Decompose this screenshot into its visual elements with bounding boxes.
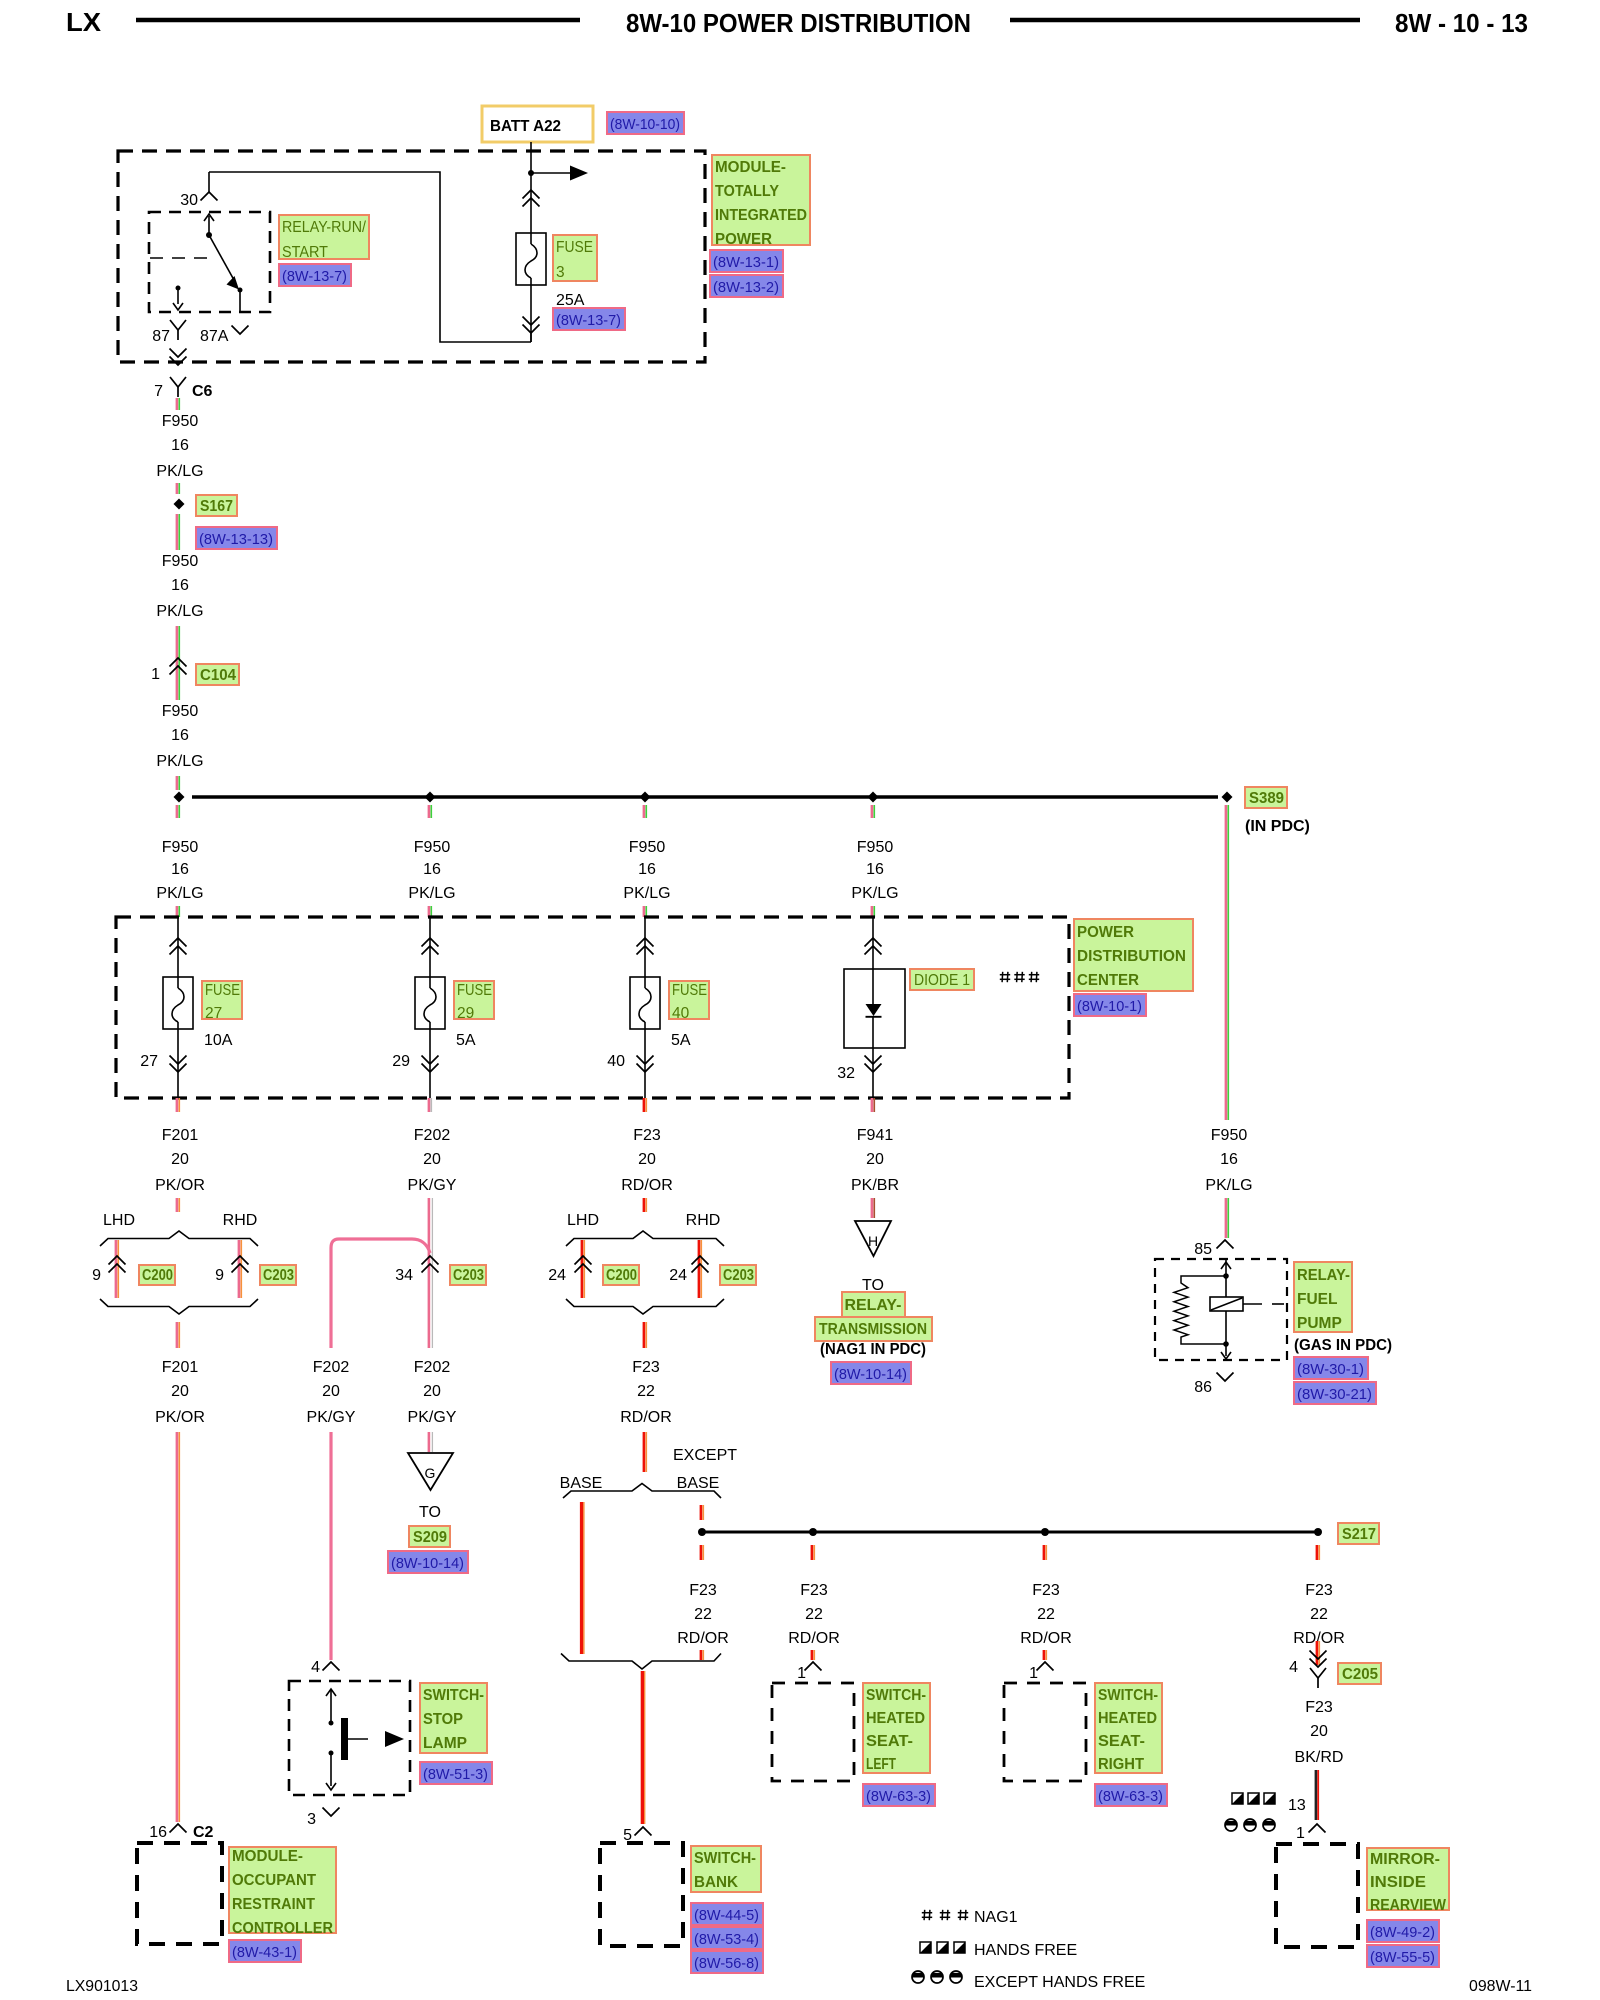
wire F202 below PDC (428, 1098, 431, 1112)
svg-text:C203: C203 (263, 1267, 294, 1284)
svg-text:34: 34 (395, 1267, 413, 1284)
wire F23 LHD (581, 1240, 584, 1298)
switch heated seat RIGHT dashed box (1004, 1683, 1086, 1781)
wire F23 except-base to S217 (700, 1505, 703, 1520)
label FUSE 27 (202, 981, 242, 1019)
svg-text:PUMP: PUMP (1297, 1315, 1342, 1332)
svg-text:INSIDE: INSIDE (1370, 1874, 1426, 1891)
svg-text:SWITCH-: SWITCH- (1098, 1687, 1158, 1704)
svg-text:(8W-10-10): (8W-10-10) (610, 116, 680, 133)
svg-text:G: G (425, 1465, 436, 1481)
svg-text:F23: F23 (633, 1127, 661, 1144)
connector C203 pin 9 (F201) (232, 1256, 249, 1265)
svg-text:PK/LG: PK/LG (156, 885, 203, 902)
svg-text:PK/OR: PK/OR (155, 1409, 205, 1426)
brace merge F23 (566, 1299, 724, 1314)
fuse 29 (415, 977, 445, 1029)
svg-text:24: 24 (548, 1267, 566, 1284)
svg-text:(8W-56-8): (8W-56-8) (694, 1955, 759, 1972)
module Power Distribution Center dashed box (116, 917, 1069, 1098)
svg-text:RD/OR: RD/OR (1020, 1630, 1072, 1647)
svg-text:20: 20 (1310, 1723, 1328, 1740)
header rule right (1010, 18, 1360, 23)
switch heated seat RIGHT pin 1 (1037, 1662, 1054, 1671)
wire F23 to switch bank (641, 1671, 644, 1824)
label S209 (409, 1526, 450, 1547)
svg-text:1: 1 (797, 1665, 806, 1682)
svg-text:START: START (282, 244, 328, 261)
svg-text:PK/LG: PK/LG (156, 463, 203, 480)
svg-text:1: 1 (1296, 1825, 1305, 1842)
svg-text:DISTRIBUTION: DISTRIBUTION (1077, 948, 1186, 965)
svg-text:C2: C2 (193, 1824, 214, 1841)
page ref (8W-53-4) (691, 1927, 763, 1949)
svg-text:(NAG1 IN PDC): (NAG1 IN PDC) (820, 1341, 926, 1358)
svg-text:16: 16 (171, 577, 189, 594)
label MODULE-OCCUPANT RESTRAINT CONTROLLER (229, 1847, 336, 1933)
page ref (8W-13-7) fuse3 (553, 308, 625, 330)
module Occupant Restraint Controller box (137, 1843, 222, 1944)
svg-text:RD/OR: RD/OR (620, 1409, 672, 1426)
svg-text:29: 29 (457, 1005, 474, 1022)
svg-text:29: 29 (392, 1053, 410, 1070)
label C200 (139, 1265, 175, 1285)
connector C205 pin 4 (1310, 1659, 1327, 1668)
svg-text:22: 22 (694, 1606, 712, 1623)
wire F950 to fuel pump relay (1225, 805, 1228, 1120)
svg-text:HEATED: HEATED (1098, 1710, 1157, 1727)
svg-text:BANK: BANK (694, 1874, 739, 1891)
svg-text:F950: F950 (629, 839, 666, 856)
switch stop lamp dashed box (289, 1681, 410, 1795)
junction dot (528, 170, 534, 176)
page ref (8W-43-1) (229, 1940, 301, 1962)
node BATT A22 (482, 106, 593, 142)
wire F201 long run to OCM (176, 1432, 179, 1822)
svg-text:16: 16 (171, 727, 189, 744)
page ref (8W-10-10) (607, 112, 684, 134)
svg-text:(8W-13-7): (8W-13-7) (282, 268, 347, 285)
svg-text:PK/GY: PK/GY (307, 1409, 356, 1426)
svg-text:(8W-63-3): (8W-63-3) (1098, 1788, 1163, 1805)
svg-text:24: 24 (669, 1267, 687, 1284)
svg-text:22: 22 (1310, 1606, 1328, 1623)
svg-text:INTEGRATED: INTEGRATED (715, 207, 807, 224)
svg-text:(IN PDC): (IN PDC) (1245, 818, 1310, 835)
page ref (8W-13-1) (710, 250, 783, 272)
svg-text:C203: C203 (723, 1267, 754, 1284)
svg-text:40: 40 (607, 1053, 625, 1070)
label C203 (F202) (450, 1265, 486, 1285)
connector C203 pin 34 (422, 1256, 439, 1265)
svg-text:CONTROLLER: CONTROLLER (232, 1920, 333, 1937)
svg-text:F201: F201 (162, 1127, 199, 1144)
svg-text:PK/LG: PK/LG (156, 753, 203, 770)
svg-text:27: 27 (140, 1053, 158, 1070)
svg-text:22: 22 (1037, 1606, 1055, 1623)
svg-text:S217: S217 (1342, 1526, 1376, 1543)
page ref (8W-10-14) transmission (831, 1362, 911, 1384)
svg-text:8W - 10 - 13: 8W - 10 - 13 (1395, 8, 1528, 38)
label S167 (196, 495, 237, 516)
wire F941 stub (871, 1198, 874, 1218)
wire below S167 (176, 514, 179, 550)
svg-text:(8W-30-1): (8W-30-1) (1297, 1361, 1364, 1378)
svg-text:(8W-30-21): (8W-30-21) (1297, 1386, 1372, 1403)
svg-text:PK/LG: PK/LG (623, 885, 670, 902)
switch stop lamp pin 3 (323, 1808, 340, 1817)
svg-text:F950: F950 (162, 553, 199, 570)
svg-text:FUSE: FUSE (556, 239, 593, 256)
page ref (8W-56-8) (691, 1951, 763, 1973)
wire F202 branch to stop lamp switch (331, 1239, 430, 1348)
svg-text:RHD: RHD (686, 1212, 721, 1229)
brace merge F201 (100, 1299, 258, 1314)
svg-text:BK/RD: BK/RD (1295, 1749, 1344, 1766)
label S389 (1245, 787, 1287, 808)
connector C203 pin 24 (692, 1256, 709, 1265)
splice bus junction 1 (174, 792, 185, 803)
connector C104 pin 1 (170, 658, 187, 667)
wire F201 below PDC (176, 1098, 179, 1112)
svg-text:22: 22 (637, 1383, 655, 1400)
svg-text:F23: F23 (632, 1359, 660, 1376)
splice S389 (1222, 792, 1233, 803)
brace split LHD/RHD F201 (100, 1231, 258, 1246)
label RELAY-RUN/START (279, 215, 369, 259)
svg-text:F950: F950 (1211, 1127, 1248, 1144)
page ref (8W-51-3) (420, 1762, 492, 1784)
svg-text:(8W-13-2): (8W-13-2) (713, 279, 779, 296)
wire F23 drop at 702 (700, 1545, 703, 1560)
svg-text:F950: F950 (162, 703, 199, 720)
svg-text:098W-11: 098W-11 (1469, 1978, 1532, 1995)
svg-text:13: 13 (1288, 1797, 1306, 1814)
wire F23 drop at 1045 (1043, 1545, 1046, 1560)
splice S167 (174, 499, 185, 510)
svg-text:(8W-55-5): (8W-55-5) (1370, 1949, 1435, 1966)
wire F202 stub (428, 1198, 431, 1348)
marker NAG1 hashes (1000, 974, 1010, 976)
label FUSE 3 (553, 235, 597, 281)
svg-text:SWITCH-: SWITCH- (866, 1687, 926, 1704)
svg-text:PK/BR: PK/BR (851, 1177, 899, 1194)
label C203 (260, 1265, 296, 1285)
svg-text:20: 20 (423, 1151, 441, 1168)
header rule left (136, 18, 580, 23)
page ref (8W-13-7) relay (279, 264, 351, 286)
label C200 (F23) (603, 1265, 639, 1285)
svg-text:F201: F201 (162, 1359, 199, 1376)
svg-text:3: 3 (556, 264, 565, 281)
svg-text:86: 86 (1194, 1379, 1212, 1396)
svg-text:RD/OR: RD/OR (788, 1630, 840, 1647)
svg-text:MIRROR-: MIRROR- (1370, 1851, 1440, 1868)
svg-text:LHD: LHD (567, 1212, 599, 1229)
svg-text:PK/LG: PK/LG (408, 885, 455, 902)
page ref (8W-13-2) (710, 275, 783, 297)
connector C2 pin 16 (170, 1824, 187, 1833)
connector C200 pin 24 (575, 1256, 592, 1265)
relay contact 87 (176, 286, 181, 291)
svg-text:OCCUPANT: OCCUPANT (232, 1872, 317, 1889)
svg-text:9: 9 (92, 1267, 101, 1284)
wire BATT A22 to fuse 3 (530, 142, 532, 188)
legend NAG1 (922, 1912, 932, 1914)
svg-text:PK/LG: PK/LG (851, 885, 898, 902)
wire F202 branch long run (329, 1432, 332, 1660)
svg-text:5A: 5A (456, 1032, 476, 1049)
wire F23 merged (643, 1322, 646, 1348)
svg-text:F941: F941 (857, 1127, 894, 1144)
label C203 (F23) (720, 1265, 756, 1285)
wire F202 to G (428, 1432, 431, 1452)
svg-text:F950: F950 (857, 839, 894, 856)
svg-text:(8W-10-14): (8W-10-14) (391, 1555, 464, 1572)
svg-text:RIGHT: RIGHT (1098, 1756, 1145, 1773)
page ref (8W-49-2) (1367, 1920, 1439, 1942)
svg-text:DIODE 1: DIODE 1 (914, 972, 970, 989)
connector C200 pin 9 (F201) (109, 1256, 126, 1265)
wire F23 BASE (580, 1502, 583, 1654)
svg-text:25A: 25A (556, 292, 585, 309)
wire F950 16 PK/LG segment 1 (176, 398, 179, 410)
relay RUN/START dashed box (149, 212, 270, 312)
svg-text:(8W-10-14): (8W-10-14) (834, 1366, 907, 1383)
relay contact arm (208, 216, 210, 235)
bus wire S389 (192, 795, 1218, 798)
svg-text:C203: C203 (453, 1267, 484, 1284)
svg-text:MODULE-: MODULE- (715, 159, 786, 176)
svg-text:F202: F202 (414, 1359, 451, 1376)
wire F201 RHD (238, 1240, 241, 1298)
svg-text:9: 9 (215, 1267, 224, 1284)
svg-text:FUSE: FUSE (672, 982, 707, 999)
page ref (8W-30-1) (1294, 1357, 1368, 1379)
svg-text:LEFT: LEFT (866, 1756, 896, 1773)
svg-text:8W-10 POWER DISTRIBUTION: 8W-10 POWER DISTRIBUTION (626, 8, 971, 38)
svg-text:(8W-43-1): (8W-43-1) (232, 1944, 297, 1961)
pin 87A (239, 290, 241, 312)
svg-text:LX901013: LX901013 (66, 1978, 138, 1995)
svg-text:S167: S167 (200, 498, 233, 515)
svg-text:20: 20 (171, 1383, 189, 1400)
svg-text:FUSE: FUSE (457, 982, 492, 999)
label RELAY-TRANSMISSION (842, 1292, 905, 1317)
svg-text:S389: S389 (1249, 790, 1284, 807)
label MODULE-TOTALLY INTEGRATED POWER (712, 155, 810, 245)
svg-text:F23: F23 (1305, 1699, 1333, 1716)
fuse 27 (163, 977, 193, 1029)
relay fuel pump dashed box (1155, 1259, 1287, 1360)
svg-text:FUEL: FUEL (1297, 1291, 1337, 1308)
connector marks into fuse 29 (429, 917, 431, 977)
wire F950 tap at x=430 (428, 805, 431, 818)
svg-text:F950: F950 (162, 413, 199, 430)
brace split LHD/RHD F23 (566, 1231, 724, 1246)
svg-text:(8W-44-5): (8W-44-5) (694, 1907, 759, 1924)
svg-text:F23: F23 (1032, 1582, 1060, 1599)
svg-text:20: 20 (322, 1383, 340, 1400)
svg-text:F950: F950 (162, 839, 199, 856)
svg-text:CENTER: CENTER (1077, 972, 1139, 989)
svg-text:16: 16 (1220, 1151, 1238, 1168)
relay fuel pump internals (1225, 1259, 1227, 1276)
switch bank pin 5 (635, 1827, 652, 1836)
svg-text:(GAS IN PDC): (GAS IN PDC) (1294, 1337, 1392, 1354)
svg-text:PK/LG: PK/LG (1205, 1177, 1252, 1194)
label DIODE 1 (910, 969, 974, 990)
svg-text:TO: TO (419, 1504, 441, 1521)
svg-text:S209: S209 (413, 1529, 447, 1546)
page ref (8W-30-21) (1294, 1382, 1376, 1404)
label FUSE 40 (669, 981, 709, 1019)
svg-text:TOTALLY: TOTALLY (715, 183, 780, 200)
wire F201 LHD (115, 1240, 118, 1298)
svg-text:C6: C6 (192, 383, 213, 400)
svg-text:30: 30 (180, 192, 198, 209)
label C104 (196, 664, 239, 685)
svg-text:(8W-63-3): (8W-63-3) (866, 1788, 931, 1805)
svg-text:MODULE-: MODULE- (232, 1848, 303, 1865)
svg-text:16: 16 (638, 861, 656, 878)
svg-text:RELAY-: RELAY- (845, 1297, 902, 1314)
svg-text:16: 16 (866, 861, 884, 878)
svg-text:(8W-13-7): (8W-13-7) (556, 312, 621, 329)
off-page H (855, 1221, 891, 1256)
svg-text:10A: 10A (204, 1032, 233, 1049)
svg-text:4: 4 (1289, 1659, 1298, 1676)
svg-text:POWER: POWER (715, 231, 772, 248)
wire F23 RHD (698, 1240, 701, 1298)
svg-text:F202: F202 (313, 1359, 350, 1376)
svg-text:(8W-49-2): (8W-49-2) (1370, 1924, 1435, 1941)
svg-text:(8W-10-1): (8W-10-1) (1077, 998, 1142, 1015)
svg-text:EXCEPT HANDS FREE: EXCEPT HANDS FREE (974, 1974, 1145, 1991)
svg-text:85: 85 (1194, 1241, 1212, 1258)
stop lamp switch contact (330, 1689, 332, 1723)
svg-text:RELAY-: RELAY- (1297, 1267, 1350, 1284)
connector C6 pin 7 (170, 377, 186, 387)
legend EXCEPT HANDS FREE (912, 1973, 924, 1978)
pin 32 out (872, 1048, 874, 1098)
svg-text:C104: C104 (200, 667, 236, 684)
svg-text:PK/GY: PK/GY (408, 1409, 457, 1426)
page ref (8W-10-1) (1074, 994, 1146, 1016)
label FUSE 29 (454, 981, 494, 1019)
label S217 (1338, 1523, 1379, 1544)
svg-text:5A: 5A (671, 1032, 691, 1049)
svg-text:40: 40 (672, 1005, 690, 1022)
bus junction 2 (425, 792, 436, 803)
svg-text:SWITCH-: SWITCH- (423, 1687, 484, 1704)
marker except hands free circles (1225, 1821, 1237, 1826)
pin 40 out (644, 1029, 646, 1098)
svg-text:HANDS FREE: HANDS FREE (974, 1942, 1077, 1959)
svg-text:RELAY-RUN/: RELAY-RUN/ (282, 219, 367, 236)
page ref (8W-63-3) LEFT (863, 1784, 935, 1806)
svg-text:F23: F23 (1305, 1582, 1333, 1599)
svg-text:C205: C205 (1342, 1666, 1378, 1683)
page ref (8W-10-14) S209 (388, 1551, 468, 1573)
svg-text:16: 16 (149, 1824, 167, 1841)
svg-text:16: 16 (171, 861, 189, 878)
svg-text:HEATED: HEATED (866, 1710, 925, 1727)
svg-text:SWITCH-: SWITCH- (694, 1850, 756, 1867)
svg-text:LX: LX (66, 7, 102, 37)
svg-text:C200: C200 (606, 1267, 637, 1284)
wire F23 rejoin below labels (561, 1654, 721, 1670)
label SWITCH-BANK (691, 1846, 761, 1892)
svg-text:PK/LG: PK/LG (156, 603, 203, 620)
relay coil (1210, 1297, 1243, 1311)
wire F950 tap at x=178 (176, 805, 179, 818)
label MIRROR-INSIDE REARVIEW (1367, 1848, 1449, 1910)
connector marks TIPM output (170, 357, 187, 366)
svg-text:27: 27 (205, 1005, 222, 1022)
svg-text:20: 20 (638, 1151, 656, 1168)
fuse 40 (630, 977, 660, 1029)
svg-text:POWER: POWER (1077, 924, 1134, 941)
svg-text:SEAT-: SEAT- (866, 1733, 913, 1750)
page ref (8W-63-3) RIGHT (1095, 1784, 1167, 1806)
wire F950 tap at x=873 (871, 805, 874, 818)
svg-text:22: 22 (805, 1606, 823, 1623)
label SWITCH-HEATED SEAT-LEFT (863, 1683, 930, 1773)
svg-text:EXCEPT: EXCEPT (673, 1447, 737, 1464)
diode 1 (872, 917, 874, 969)
svg-text:(8W-51-3): (8W-51-3) (423, 1766, 488, 1783)
svg-text:NAG1: NAG1 (974, 1909, 1018, 1926)
connector marks into fuse 40 (644, 917, 646, 977)
svg-text:RD/OR: RD/OR (677, 1630, 729, 1647)
svg-text:TRANSMISSION: TRANSMISSION (819, 1321, 927, 1338)
svg-text:RESTRAINT: RESTRAINT (232, 1896, 315, 1913)
svg-text:BASE: BASE (677, 1475, 720, 1492)
wire F201 stub (176, 1198, 179, 1212)
wire stub (176, 483, 179, 494)
svg-text:RD/OR: RD/OR (621, 1177, 673, 1194)
resistor (1174, 1276, 1226, 1344)
label POWER DISTRIBUTION CENTER (1074, 919, 1193, 991)
relay RUN/START pin 30 (208, 172, 210, 192)
svg-text:16: 16 (423, 861, 441, 878)
svg-text:REARVIEW: REARVIEW (1370, 1897, 1446, 1914)
wire F23 drop at 813 (811, 1545, 814, 1560)
connector marks into fuse 27 (177, 917, 179, 977)
svg-text:32: 32 (837, 1065, 855, 1082)
relay coil dashed line (150, 257, 211, 259)
relay fuel pump pin 85 (1217, 1240, 1234, 1249)
svg-text:H: H (868, 1233, 878, 1249)
fuse 3 symbol (516, 233, 546, 285)
svg-text:LAMP: LAMP (423, 1735, 467, 1752)
off-page G (408, 1453, 453, 1490)
svg-text:20: 20 (171, 1151, 189, 1168)
svg-text:1: 1 (151, 666, 160, 683)
bus junction 3 (640, 792, 651, 803)
switch bank dashed box (600, 1843, 683, 1946)
svg-text:C200: C200 (142, 1267, 173, 1284)
svg-text:87: 87 (152, 328, 170, 345)
label SWITCH-STOP LAMP (420, 1683, 487, 1753)
pin 87 (170, 320, 186, 330)
mirror inside rearview dashed box (1276, 1844, 1358, 1947)
page ref (8W-13-13) (196, 527, 277, 549)
svg-text:20: 20 (423, 1383, 441, 1400)
svg-text:(8W-13-1): (8W-13-1) (713, 254, 779, 271)
pin 29 out (429, 1029, 431, 1098)
